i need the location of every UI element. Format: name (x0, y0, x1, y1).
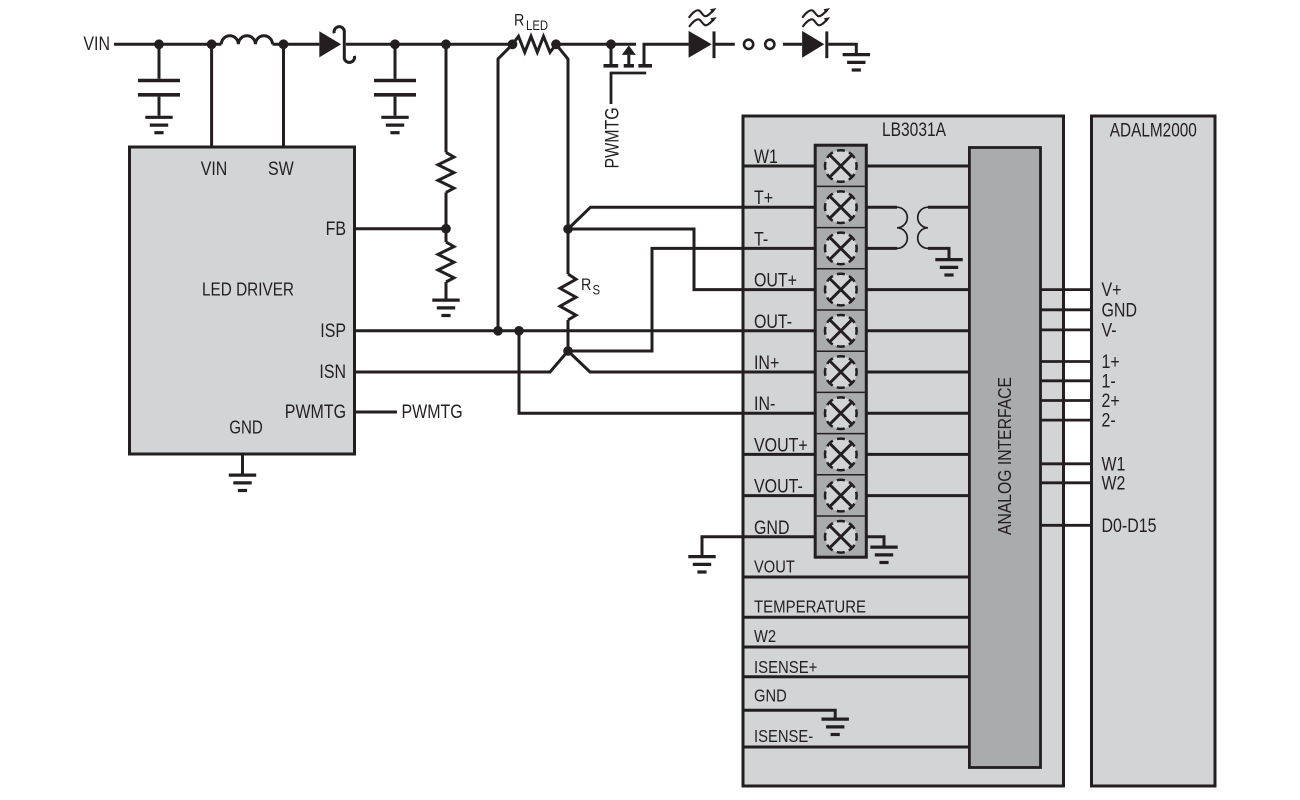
pin label SW (U1) (268, 159, 294, 180)
junction node MOSFET source (606, 39, 616, 49)
wire to LED D3 (783, 43, 802, 46)
svg-text:W2: W2 (754, 626, 776, 646)
svg-text:GND: GND (1102, 300, 1138, 321)
terminal T- screw symbol (825, 233, 857, 265)
wire lead right of terminal VOUT- to analog interface (866, 494, 969, 497)
wire PWMTG pin stub (355, 411, 398, 414)
wire RS top to OUT+ row (568, 229, 743, 290)
wire D2 cathode (716, 43, 735, 46)
wire V- to ADALM2000 (1041, 328, 1092, 331)
wire RLED to MOSFET (556, 43, 611, 46)
wire ISP branch to IN- row (519, 331, 743, 413)
svg-text:S: S (593, 283, 601, 298)
terminal block strip (815, 145, 866, 557)
pin label FB (U1) (326, 219, 346, 240)
wire lead left of terminal OUT- (743, 329, 815, 332)
junction node VIN/C1 (154, 39, 164, 49)
pin label GND (ADALM2000) (1102, 300, 1138, 321)
pin label 2+ (ADALM2000) (1102, 391, 1120, 412)
svg-text:ISENSE-: ISENSE- (754, 726, 813, 746)
wire lead right of terminal GND to ground (866, 537, 884, 546)
pin label OUT- (LB3031A) (754, 312, 792, 333)
svg-text:VIN: VIN (201, 159, 228, 180)
pin label V- (ADALM2000) (1102, 320, 1117, 341)
resistor RS (560, 229, 576, 351)
wire lead right of terminal OUT+ to analog interface (866, 288, 969, 291)
pin label W2 (LB3031A lower) (754, 626, 776, 646)
wire W1 to ADALM2000 (1041, 462, 1092, 465)
terminal GND screw symbol (825, 521, 857, 553)
terminal VOUT- screw symbol (825, 480, 857, 512)
terminal OUT+ screw symbol (825, 274, 857, 306)
terminal T+ screw symbol (825, 191, 857, 223)
ground external left of LB3031A (688, 557, 715, 572)
junction node RS top (563, 224, 573, 234)
wire VIN rail to inductor (114, 43, 221, 46)
terminal VOUT+ screw symbol (825, 439, 857, 471)
junction node C2 (390, 39, 400, 49)
label LED DRIVER (202, 280, 294, 300)
svg-text:ISP: ISP (320, 321, 346, 342)
board LB3031A box (743, 116, 1064, 786)
wire kelvin RLED left to ISP (498, 44, 513, 331)
wire RS bottom to T- row (568, 248, 743, 351)
wire lead right of terminal OUT- to analog interface (866, 329, 969, 332)
pin label OUT+ (LB3031A) (754, 271, 797, 292)
ground at GND terminal (870, 547, 897, 562)
pin label W1 (LB3031A) (754, 147, 778, 168)
wire row W2 to analog interface (743, 646, 969, 649)
svg-text:T+: T+ (754, 188, 773, 209)
net label VIN (83, 34, 110, 55)
pin label IN+ (LB3031A) (754, 353, 779, 374)
IC U1 LED DRIVER box (130, 147, 355, 454)
svg-text:LED DRIVER: LED DRIVER (202, 280, 294, 300)
pin label GND (LB3031A lower) (754, 686, 787, 706)
svg-text:FB: FB (326, 219, 346, 240)
node dots (series LEDs continuation) (744, 40, 774, 49)
pin label GND (U1) (229, 418, 263, 438)
svg-text:IN+: IN+ (754, 353, 779, 374)
pin label VOUT (LB3031A lower) (754, 557, 795, 577)
svg-text:W1: W1 (1102, 454, 1126, 475)
wire SW pin (282, 44, 285, 147)
diode D1 schottky (319, 27, 354, 63)
capacitor C2 (374, 44, 416, 115)
wire lead right of terminal T+ to transformer (866, 206, 897, 209)
pin label 1- (ADALM2000) (1102, 371, 1116, 392)
label ADALM2000 (1110, 119, 1197, 141)
svg-text:V+: V+ (1102, 280, 1122, 301)
wire lead right of terminal IN+ to analog interface (866, 371, 969, 374)
svg-text:W2: W2 (1102, 473, 1126, 494)
ground at T1 secondary (935, 260, 962, 275)
svg-text:ISN: ISN (319, 362, 346, 383)
pin label T- (LB3031A) (754, 229, 768, 250)
svg-text:ANALOG INTERFACE: ANALOG INTERFACE (994, 377, 1015, 535)
wire GND terminal row external (702, 537, 743, 555)
svg-text:1+: 1+ (1102, 352, 1120, 373)
wire lead left of terminal VOUT- (743, 494, 815, 497)
wire row ISENSE- to analog interface (743, 746, 969, 749)
svg-text:LB3031A: LB3031A (882, 119, 946, 141)
pin label VOUT- (LB3031A) (754, 477, 803, 498)
pin label PWMTG (U1) (285, 402, 346, 423)
capacitor C1 (138, 44, 180, 115)
junction node R1 top (441, 39, 451, 49)
junction node L1 right / SW pin (279, 39, 289, 49)
svg-text:GND: GND (754, 686, 787, 706)
wire lead left of terminal T- (743, 247, 815, 250)
svg-text:SW: SW (268, 159, 294, 180)
wire T1 secondary top to analog interface (928, 206, 969, 209)
svg-text:TEMPERATURE: TEMPERATURE (754, 596, 866, 616)
pin label VOUT+ (LB3031A) (754, 435, 808, 456)
svg-text:PWMTG: PWMTG (603, 107, 624, 168)
svg-text:VOUT+: VOUT+ (754, 435, 808, 456)
svg-text:W1: W1 (754, 147, 778, 168)
terminal W1 screw symbol (825, 150, 857, 182)
wire RS bottom to IN+ row (568, 351, 743, 372)
junction node RLED right (551, 39, 561, 49)
wire lead right of terminal VOUT+ to analog interface (866, 453, 969, 456)
junction node ISP/IN- branch (514, 326, 524, 336)
net label PWMTG (gate, vertical) (603, 107, 624, 168)
wire diode to RLED (346, 43, 513, 46)
junction node RLED left (508, 39, 518, 49)
svg-text:2+: 2+ (1102, 391, 1120, 412)
wire row VOUT to analog interface (743, 576, 969, 579)
terminal OUT- screw symbol (825, 315, 857, 347)
terminal IN- screw symbol (825, 397, 857, 429)
wire 1- to ADALM2000 (1041, 379, 1092, 382)
pin label W2 (ADALM2000) (1102, 473, 1126, 494)
svg-text:1-: 1- (1102, 371, 1116, 392)
ground for FB divider (432, 300, 459, 315)
wire lead left of terminal GND (743, 535, 815, 538)
wire ISP to OUT- row (355, 329, 744, 332)
wire V+ to ADALM2000 (1041, 288, 1092, 291)
wire lead left of terminal IN+ (743, 371, 815, 374)
wire GND row (lower) to ground (743, 710, 835, 717)
wire ISN to RS bottom (355, 351, 569, 372)
svg-text:V-: V- (1102, 320, 1117, 341)
light arrows of D2 (689, 8, 717, 18)
wire lead right of terminal T- to transformer (866, 247, 897, 250)
pin label ISN (U1) (319, 362, 346, 383)
ground at lower GND row (822, 719, 849, 734)
pin label V+ (ADALM2000) (1102, 280, 1122, 301)
label LB3031A (882, 119, 946, 141)
pin label T+ (LB3031A) (754, 188, 773, 209)
svg-text:PWMTG: PWMTG (402, 402, 463, 423)
wire T1 secondary bottom to ground (928, 248, 949, 258)
board ADALM2000 box (1092, 116, 1216, 786)
wire lead left of terminal IN- (743, 412, 815, 415)
pin label VIN (U1) (201, 159, 228, 180)
svg-text:IN-: IN- (754, 394, 775, 415)
svg-text:R: R (514, 11, 524, 30)
wire U1 GND pin (241, 454, 244, 474)
ground for C2 (381, 117, 408, 132)
svg-text:D0-D15: D0-D15 (1102, 516, 1157, 537)
net label PWMTG (pin) (402, 402, 463, 423)
wire 2- to ADALM2000 (1041, 419, 1092, 422)
pin label ISENSE- (LB3031A lower) (754, 726, 813, 746)
wire 1+ to ADALM2000 (1041, 360, 1092, 363)
pin label TEMPERATURE (LB3031A lower) (754, 596, 866, 616)
label RS (581, 275, 600, 298)
wire D3 to ground (828, 44, 856, 53)
svg-text:R: R (581, 275, 591, 294)
junction node L1 left / VIN pin (207, 39, 217, 49)
ground for C1 (145, 117, 172, 132)
transformer T1 (897, 207, 928, 248)
wire row ISENSE+ to analog interface (743, 675, 969, 678)
svg-text:ISENSE+: ISENSE+ (754, 657, 817, 677)
light arrows of D3 (802, 8, 830, 18)
svg-text:OUT-: OUT- (754, 312, 792, 333)
svg-text:OUT+: OUT+ (754, 271, 797, 292)
wire lead left of terminal VOUT+ (743, 453, 815, 456)
pin label ISENSE+ (LB3031A lower) (754, 657, 817, 677)
svg-text:T-: T- (754, 229, 768, 250)
ground for U1 (229, 475, 256, 490)
svg-text:LED: LED (526, 18, 548, 33)
wire 2+ to ADALM2000 (1041, 399, 1092, 402)
LED D3 (802, 31, 827, 58)
resistor R2 (FB divider bottom) (438, 242, 454, 299)
wire RS top to T+ row (568, 207, 743, 229)
ground for LED string (843, 55, 870, 70)
wire lead left of terminal T+ (743, 206, 815, 209)
svg-text:PWMTG: PWMTG (285, 402, 346, 423)
svg-text:ADALM2000: ADALM2000 (1110, 119, 1197, 141)
wire lead left of terminal OUT+ (743, 288, 815, 291)
pin label IN- (LB3031A) (754, 394, 775, 415)
wire row TEMPERATURE to analog interface (743, 616, 969, 619)
svg-text:GND: GND (229, 418, 263, 438)
label RLED (514, 11, 548, 34)
resistor RLED (513, 36, 557, 52)
junction node FB (441, 224, 451, 234)
inductor L1 (221, 36, 272, 45)
pin label D0-D15 (ADALM2000) (1102, 516, 1157, 537)
pin label W1 (ADALM2000) (1102, 454, 1126, 475)
svg-text:VIN: VIN (83, 34, 110, 55)
wire lead right of terminal W1 to analog interface (866, 165, 969, 168)
wire GND to ADALM2000 (1041, 308, 1092, 311)
svg-text:VOUT: VOUT (754, 557, 795, 577)
pin label ISP (U1) (320, 321, 346, 342)
pin label 1+ (ADALM2000) (1102, 352, 1120, 373)
pin label GND (LB3031A) (754, 518, 790, 539)
svg-text:2-: 2- (1102, 411, 1116, 432)
wire D0-D15 to ADALM2000 (1041, 524, 1092, 527)
svg-text:VOUT-: VOUT- (754, 477, 803, 498)
junction node ISP/RLED-left sense (493, 326, 503, 336)
wire W2 to ADALM2000 (1041, 481, 1092, 484)
terminal IN+ screw symbol (825, 356, 857, 388)
transistor M1 NMOS (604, 44, 689, 104)
resistor R1 (FB divider top) (438, 44, 454, 242)
wire inductor to diode (273, 43, 320, 46)
wire lead left of terminal W1 (743, 165, 815, 168)
wire VIN pin (210, 44, 213, 147)
wire FB (355, 227, 447, 230)
pin label 2- (ADALM2000) (1102, 411, 1116, 432)
analog interface block (969, 148, 1040, 768)
LED D2 (689, 31, 714, 58)
junction node RS bottom (563, 346, 573, 356)
wire kelvin RLED right to RS (556, 44, 568, 229)
wire lead right of terminal IN- to analog interface (866, 412, 969, 415)
svg-text:GND: GND (754, 518, 790, 539)
